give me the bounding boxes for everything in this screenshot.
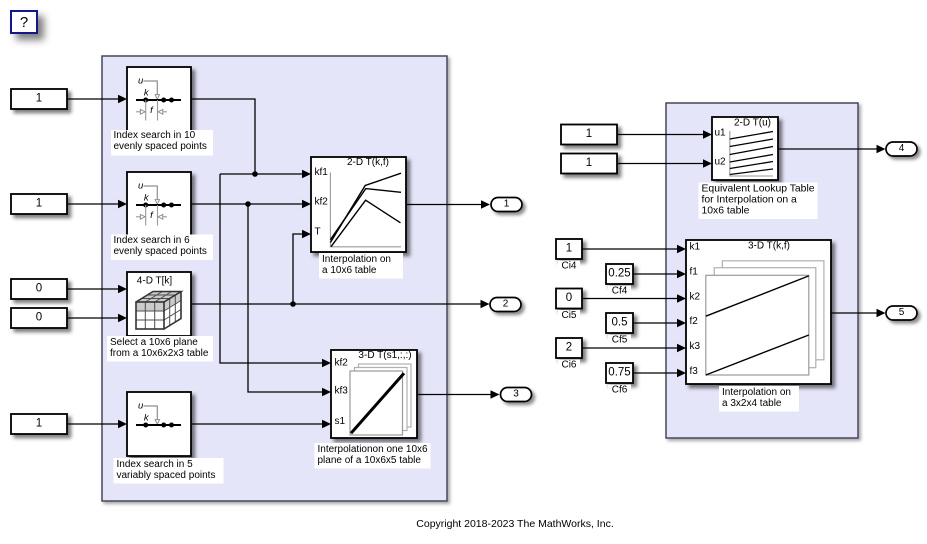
svg-text:Interpolation on: Interpolation on xyxy=(322,254,391,265)
port arrow into Prelookup5 xyxy=(118,420,127,428)
constant block Cf5 xyxy=(606,313,633,333)
svg-text:Cf4: Cf4 xyxy=(612,286,628,297)
junction node on kf1 wire xyxy=(252,171,258,177)
svg-text:4: 4 xyxy=(899,143,905,154)
svg-text:u: u xyxy=(138,181,144,192)
outport 2 xyxy=(490,298,521,312)
svg-text:k3: k3 xyxy=(690,341,701,352)
port arrow into k1 xyxy=(677,245,686,253)
port arrow into k2 xyxy=(677,294,686,302)
svg-text:Equivalent Lookup Table: Equivalent Lookup Table xyxy=(702,184,815,195)
svg-text:1: 1 xyxy=(36,198,42,210)
svg-text:plane of a 10x6x5 table: plane of a 10x6x5 table xyxy=(318,455,422,466)
svg-text:variably spaced points: variably spaced points xyxy=(117,470,216,481)
svg-text:1: 1 xyxy=(566,243,572,255)
constant block Ci4 xyxy=(556,239,582,259)
svg-text:10x6 table: 10x6 table xyxy=(702,206,750,217)
wire: Ci5 to k2 xyxy=(582,298,678,300)
selector block: 4-D T[k] xyxy=(127,272,191,336)
wire: Prelookup6 to kf2 of 2-D interpolation xyxy=(191,203,303,205)
port arrow into outport 4 xyxy=(877,145,886,153)
svg-text:evenly spaced points: evenly spaced points xyxy=(114,141,207,152)
wire: right constant 1 to u1 xyxy=(617,134,704,136)
wire: branch up to T input of 2-D interpolation xyxy=(293,234,303,304)
port arrow into f3 xyxy=(677,369,686,377)
svg-text:0.5: 0.5 xyxy=(612,317,628,329)
outport 3 xyxy=(501,388,532,402)
area: right equivalent group xyxy=(666,103,858,438)
label Ci4 xyxy=(558,261,580,273)
wire: 2-D interpolation output to outport 1 xyxy=(406,204,482,206)
port arrow into kf1 of 2-D interpolation xyxy=(302,170,311,178)
svg-text:for Interpolation on a: for Interpolation on a xyxy=(702,195,798,206)
svg-text:Select a 10x6 plane: Select a 10x6 plane xyxy=(110,337,198,348)
port arrow into kf3 of 3-D T(s1) xyxy=(322,388,331,396)
port arrow into Prelookup10 xyxy=(118,95,127,103)
label Ci6 xyxy=(558,360,580,372)
svg-text:a 10x6 table: a 10x6 table xyxy=(322,265,377,276)
svg-text:Interpolation on: Interpolation on xyxy=(722,387,791,398)
constant block: input 0 (third) xyxy=(11,279,67,299)
caption: Index search in 6 evenly spaced points xyxy=(111,235,213,261)
constant block Cf6 xyxy=(606,363,633,383)
svg-text:s1: s1 xyxy=(335,416,346,427)
svg-text:kf3: kf3 xyxy=(335,386,349,397)
svg-text:1: 1 xyxy=(586,128,592,140)
svg-text:f1: f1 xyxy=(690,267,699,278)
svg-text:2: 2 xyxy=(503,299,509,310)
port arrow into k3 xyxy=(677,344,686,352)
wire: Prelookup5 to s1 of 3-D T(s1) xyxy=(191,423,323,425)
port arrow into u1 xyxy=(703,130,712,138)
port arrow into kf2 of 3-D T(s1) xyxy=(322,359,331,367)
port arrow into outport 5 xyxy=(877,309,886,317)
svg-text:k2: k2 xyxy=(690,292,701,303)
svg-text:?: ? xyxy=(20,14,28,31)
caption: Interpolationon one 10x6 plane of a 10x6x5 table xyxy=(315,443,431,469)
svg-text:Ci6: Ci6 xyxy=(561,360,576,371)
svg-text:Ci5: Ci5 xyxy=(561,310,576,321)
prelookup block U1: Index search in 10 evenly spaced points xyxy=(127,67,191,131)
caption: Interpolation on a 10x6 table xyxy=(319,253,403,279)
interpolation block: 3-D T(k,f) xyxy=(686,240,831,384)
junction node on selector output wire xyxy=(290,301,296,307)
svg-text:Cf5: Cf5 xyxy=(612,335,628,346)
svg-text:2: 2 xyxy=(566,342,572,354)
port arrow into s1 of 3-D T(s1) xyxy=(322,420,331,428)
svg-text:0.75: 0.75 xyxy=(608,367,630,379)
svg-text:f3: f3 xyxy=(690,366,699,377)
svg-text:u: u xyxy=(138,76,144,87)
wire: 3-D interpolation output to outport 5 xyxy=(831,312,877,314)
svg-text:1: 1 xyxy=(504,199,510,210)
svg-text:a 3x2x4 table: a 3x2x4 table xyxy=(722,398,782,409)
svg-text:u1: u1 xyxy=(715,128,727,139)
wire: Constant1 to Prelookup5 xyxy=(67,423,119,425)
wire: Cf4 to f1 xyxy=(633,273,678,275)
svg-text:0: 0 xyxy=(36,283,42,295)
svg-text:Copyright 2018-2023 The MathWo: Copyright 2018-2023 The MathWorks, Inc. xyxy=(416,518,613,530)
outport 4 xyxy=(886,142,917,156)
svg-text:k1: k1 xyxy=(690,242,701,253)
svg-text:2-D T(u): 2-D T(u) xyxy=(734,118,771,129)
svg-text:0.25: 0.25 xyxy=(608,268,630,280)
prelookup block U2: Index search in 6 evenly spaced points xyxy=(127,172,191,236)
wire: Cf6 to f3 xyxy=(633,372,678,374)
label Cf4 xyxy=(608,286,631,298)
svg-text:Index search in 6: Index search in 6 xyxy=(114,235,191,246)
interpolation block: 3-D T(s1,:,:) xyxy=(331,350,417,438)
svg-text:3-D T(k,f): 3-D T(k,f) xyxy=(748,241,790,252)
interpolation block: 2-D T(k,f) xyxy=(311,157,406,252)
port arrow into f1 xyxy=(677,270,686,278)
constant block: right input 1 (to u2) xyxy=(561,154,617,174)
label Ci5 xyxy=(558,310,580,322)
constant block: input 1 (top left) xyxy=(11,89,67,109)
svg-text:kf1: kf1 xyxy=(315,167,329,178)
svg-text:Interpolationon one 10x6: Interpolationon one 10x6 xyxy=(318,444,429,455)
caption: Select a 10x6 plane from a 10x6x2x3 table xyxy=(107,336,213,362)
area: left interpolation group xyxy=(102,56,447,501)
port arrow into outport 3 xyxy=(491,390,500,398)
svg-text:kf2: kf2 xyxy=(335,358,349,369)
constant block: input 1 (second) xyxy=(11,194,67,214)
wire: Ci4 to k1 xyxy=(582,248,678,250)
caption: Index search in 5 variably spaced points xyxy=(114,458,224,484)
wire: selector output to outport 2 xyxy=(191,303,481,305)
constant block Ci5 xyxy=(556,289,582,309)
outport 1 xyxy=(491,198,522,212)
wire: Constant 0 to selector input 1 xyxy=(67,288,119,290)
port arrow into outport 1 xyxy=(481,200,490,208)
constant block Cf4 xyxy=(606,264,633,284)
svg-text:Cf6: Cf6 xyxy=(612,385,628,396)
svg-text:0: 0 xyxy=(566,292,572,304)
svg-text:Ci4: Ci4 xyxy=(561,261,576,272)
port arrow into f2 xyxy=(677,319,686,327)
svg-text:T: T xyxy=(315,227,321,238)
help button xyxy=(11,11,37,33)
port arrow into kf2 of 2-D interpolation xyxy=(302,200,311,208)
prelookup block U3: Index search in 5 variably spaced points xyxy=(127,392,191,456)
wire: Constant2 to Prelookup6 xyxy=(67,203,119,205)
svg-text:5: 5 xyxy=(899,307,905,318)
svg-text:Index search in 5: Index search in 5 xyxy=(117,459,194,470)
wire: right constant 1 to u2 xyxy=(617,163,704,165)
svg-text:u: u xyxy=(138,401,144,412)
constant block: right input 1 (to u1) xyxy=(561,125,617,145)
port arrow into T of 2-D interpolation xyxy=(302,230,311,238)
constant block: input 1 (bottom) xyxy=(11,414,67,434)
svg-text:u2: u2 xyxy=(715,157,727,168)
svg-text:3: 3 xyxy=(513,389,519,400)
caption: Equivalent Lookup Table for Interpolation on a 10x6 table xyxy=(699,183,818,220)
label Cf6 xyxy=(608,385,631,397)
lookup table block: 2-D T(u) xyxy=(712,117,778,180)
wire: Cf5 to f2 xyxy=(633,322,678,324)
port arrow into Prelookup6 xyxy=(118,200,127,208)
label Cf5 xyxy=(608,335,631,347)
svg-text:Index search in 10: Index search in 10 xyxy=(114,130,196,141)
svg-text:1: 1 xyxy=(36,418,42,430)
port arrow into outport 2 xyxy=(481,300,490,308)
svg-text:1: 1 xyxy=(36,93,42,105)
wire: Constant 0 to selector input 2 xyxy=(67,317,119,319)
svg-text:evenly spaced points: evenly spaced points xyxy=(114,246,207,257)
svg-text:2-D T(k,f): 2-D T(k,f) xyxy=(347,157,389,168)
port arrow into u2 xyxy=(703,159,712,167)
caption: Interpolation on a 3x2x4 table xyxy=(719,386,799,412)
junction node on kf2 wire xyxy=(245,201,251,207)
constant block Ci6 xyxy=(556,338,582,358)
wire: branch down to kf3 of 3-D T(s1) block xyxy=(248,204,323,392)
svg-text:from a 10x6x2x3 table: from a 10x6x2x3 table xyxy=(110,348,209,359)
constant block: input 0 (fourth) xyxy=(11,308,67,328)
svg-text:1: 1 xyxy=(586,157,592,169)
port arrow into selector input 2 xyxy=(118,314,127,322)
wire: 2-D lookup output to outport 4 xyxy=(778,148,877,150)
wire: Constant1 to Prelookup10 xyxy=(67,98,119,100)
port arrow into selector input 1 xyxy=(118,285,127,293)
svg-text:3-D T(s1,:,:): 3-D T(s1,:,:) xyxy=(358,350,411,361)
svg-text:4-D T[k]: 4-D T[k] xyxy=(137,276,173,287)
wire: Ci6 to k3 xyxy=(582,347,678,349)
wire: 3-D T(s1) output to outport 3 xyxy=(417,394,491,396)
svg-text:kf2: kf2 xyxy=(315,197,329,208)
caption: Index search in 10 evenly spaced points xyxy=(111,130,213,156)
wire: branch down to kf2 of 3-D T(s1) block xyxy=(220,174,323,363)
wire: Prelookup10 k out, down to kf1 xyxy=(191,99,303,174)
outport 5 xyxy=(886,306,917,320)
svg-text:0: 0 xyxy=(36,312,42,324)
svg-text:f2: f2 xyxy=(690,316,699,327)
